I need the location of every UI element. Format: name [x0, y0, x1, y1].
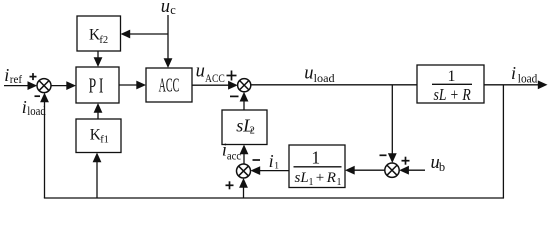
- wire Kf2 to PI: [97, 51, 99, 60]
- svg-text:1: 1: [309, 177, 314, 188]
- arrow into J3 bottom: [239, 178, 248, 188]
- text sL2: [236, 115, 255, 136]
- svg-text:ref: ref: [10, 72, 22, 86]
- summing junction J4: [385, 163, 399, 177]
- minus J1: [35, 95, 41, 97]
- svg-text:1: 1: [311, 148, 320, 168]
- label u_b: [431, 153, 446, 174]
- label i_load (output): [511, 63, 538, 85]
- text PI: [89, 73, 104, 97]
- block ACC: [146, 68, 192, 102]
- wire bottom to Kf1: [96, 160, 98, 198]
- wire J4 to block 1/(sL1+R1): [353, 169, 385, 171]
- arrow output i_load: [538, 80, 548, 89]
- fraction 1/(sL+R): [432, 68, 472, 104]
- label i_acc: [222, 140, 241, 163]
- plus J1: [30, 76, 37, 78]
- wire u_b to J4: [407, 169, 425, 171]
- svg-text:1: 1: [274, 161, 279, 171]
- svg-text:ACC: ACC: [159, 74, 180, 96]
- block PI: [76, 67, 119, 103]
- svg-text:i: i: [4, 65, 9, 85]
- plus J4: [402, 160, 410, 162]
- block Kf1: [76, 119, 121, 153]
- wire Kf1 to PI: [97, 111, 99, 120]
- svg-text:K: K: [89, 26, 100, 43]
- label u_ACC: [196, 62, 225, 85]
- wire block to J3: [258, 170, 289, 172]
- svg-text:I: I: [99, 73, 104, 97]
- svg-text:1: 1: [448, 68, 456, 85]
- wire bottom to J3: [243, 186, 245, 199]
- arrow into PI left: [66, 81, 76, 90]
- text Kf1: [90, 127, 109, 146]
- wire u_c to Kf2: [128, 33, 168, 35]
- wire PI to ACC: [119, 84, 138, 86]
- block 1/(sL1+R1): [289, 145, 345, 188]
- wire J3 to sL2: [243, 152, 245, 164]
- wire bottom feedback: [44, 197, 504, 199]
- summing junction J3: [237, 164, 251, 178]
- svg-text:1: 1: [337, 177, 342, 188]
- wire J2 to block 1/(sL+R): [251, 84, 417, 86]
- arrow into PI top: [94, 57, 103, 67]
- label u_c: [161, 0, 177, 17]
- fraction 1/(sL1+R1): [294, 148, 342, 188]
- svg-text:load: load: [518, 71, 538, 85]
- signs: [30, 71, 410, 190]
- minus J2: [230, 95, 239, 97]
- wire ACC to J2: [192, 84, 230, 86]
- plus J2: [227, 75, 237, 77]
- svg-text:sL + R: sL + R: [434, 85, 472, 104]
- svg-text:load: load: [314, 71, 335, 85]
- svg-text:load: load: [27, 104, 46, 118]
- label i_1: [269, 151, 280, 171]
- svg-text:i: i: [22, 97, 27, 117]
- wire bottom to J1: [44, 100, 46, 198]
- svg-text:u: u: [161, 0, 170, 17]
- arrow into J2 left: [228, 81, 238, 90]
- svg-text:c: c: [170, 3, 176, 17]
- wire block output to i_load: [484, 84, 539, 86]
- block Kf2: [77, 16, 121, 51]
- arrow into ACC left: [136, 81, 146, 90]
- wire u_c vertical: [167, 15, 169, 61]
- summing junction J2: [238, 79, 251, 92]
- svg-text:P: P: [89, 73, 97, 97]
- svg-text:ACC: ACC: [205, 73, 225, 85]
- summing junction J1: [37, 79, 51, 93]
- svg-text:f1: f1: [100, 135, 109, 146]
- arrow into ACC top: [164, 58, 173, 68]
- svg-text:R: R: [326, 170, 336, 186]
- arrow into Kf1 bottom: [93, 153, 102, 163]
- svg-text:sL: sL: [295, 170, 309, 186]
- svg-text:acc: acc: [227, 151, 241, 163]
- wire i_ref input: [4, 85, 29, 87]
- svg-text:f2: f2: [99, 35, 108, 46]
- svg-text:u: u: [196, 62, 205, 82]
- label u_load: [304, 64, 334, 85]
- block sL2: [222, 110, 267, 145]
- svg-text:u: u: [304, 64, 313, 84]
- svg-text:b: b: [439, 160, 445, 174]
- wire i_load feedback down: [502, 85, 504, 198]
- arrow into J4 right: [399, 166, 409, 175]
- arrow into PI bottom: [94, 103, 103, 113]
- block 1/(sL+R): [417, 65, 484, 103]
- minus J4: [380, 154, 387, 156]
- label i_load (left): [22, 97, 47, 118]
- plus J3: [226, 184, 234, 186]
- text Kf2: [89, 26, 108, 46]
- svg-text:i: i: [269, 151, 274, 171]
- wire sL2 to J2: [243, 99, 245, 110]
- label i_ref: [4, 65, 22, 86]
- arrow into J1: [28, 81, 38, 90]
- arrow into sL2 bottom: [240, 145, 249, 155]
- arrow into J1 bottom: [40, 93, 49, 103]
- minus J3: [253, 159, 261, 161]
- arrow into block 1/(sL1+R1) right: [345, 166, 355, 175]
- arrow into Kf2 right: [121, 30, 131, 39]
- arrow into J4 top: [388, 153, 397, 163]
- wire J1 to PI: [51, 85, 68, 87]
- arrow into J3 right: [251, 166, 261, 175]
- svg-text:+: +: [316, 170, 324, 186]
- wire branch down to J4: [391, 85, 393, 156]
- arrowheads: [28, 30, 548, 188]
- arrow into J2 bottom: [240, 92, 249, 102]
- svg-text:i: i: [511, 63, 516, 83]
- svg-text:2: 2: [250, 125, 255, 136]
